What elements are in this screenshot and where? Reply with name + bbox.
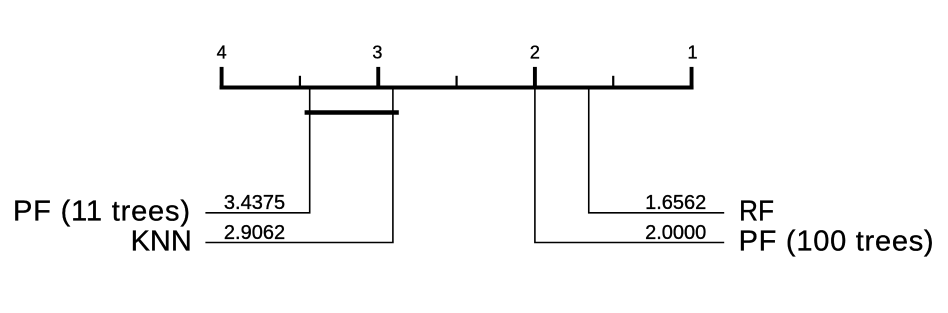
svg-text:PF (11 trees): PF (11 trees) bbox=[13, 196, 190, 228]
svg-text:RF: RF bbox=[739, 196, 774, 228]
svg-text:1: 1 bbox=[687, 43, 697, 63]
svg-text:2: 2 bbox=[530, 43, 540, 63]
svg-text:2.9062: 2.9062 bbox=[224, 222, 285, 244]
svg-text:3: 3 bbox=[372, 43, 382, 63]
svg-text:3.4375: 3.4375 bbox=[224, 192, 285, 214]
svg-text:4: 4 bbox=[217, 43, 227, 63]
svg-text:PF (100 trees): PF (100 trees) bbox=[739, 225, 934, 257]
svg-text:1.6562: 1.6562 bbox=[645, 192, 706, 214]
svg-text:2.0000: 2.0000 bbox=[645, 222, 706, 244]
svg-text:KNN: KNN bbox=[131, 225, 192, 257]
